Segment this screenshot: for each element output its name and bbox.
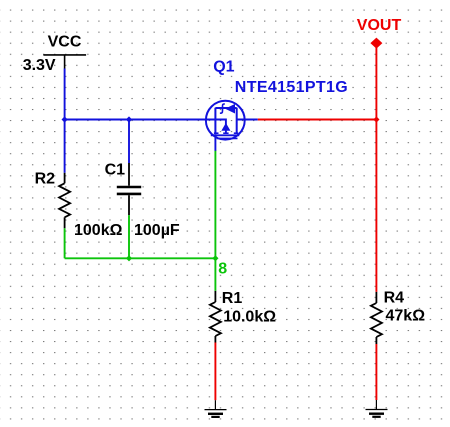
ground under R1 [205, 400, 227, 417]
node junction C1-rail (green) [126, 255, 132, 261]
node junction A (blue) [62, 116, 68, 122]
svg-text:8: 8 [218, 261, 227, 278]
resistor R4 [371, 292, 382, 344]
power symbol VCC bar [43, 55, 86, 69]
ground under R4 [366, 400, 388, 417]
node VOUT junction (red) [373, 116, 379, 122]
svg-text:47kΩ: 47kΩ [386, 307, 426, 324]
wire R2 bottom (green) [64, 228, 66, 258]
svg-text:R2: R2 [35, 171, 56, 188]
transistor Q1 MOSFET [206, 101, 258, 151]
svg-text:C1: C1 [105, 162, 126, 179]
wire source to R1 (green) [214, 150, 216, 291]
svg-text:R4: R4 [384, 290, 405, 307]
svg-text:R1: R1 [222, 290, 243, 307]
node net 8 junction (green) [212, 255, 218, 261]
wire bottom rail (green) [65, 257, 216, 259]
capacitor C1 [117, 163, 141, 215]
svg-text:3.3V: 3.3V [23, 57, 56, 74]
resistor R2 [59, 173, 70, 229]
resistor R1 [210, 291, 221, 343]
svg-text:VCC: VCC [48, 34, 82, 51]
svg-text:NTE4151PT1G: NTE4151PT1G [235, 79, 348, 96]
wire VOUT vertical top (red) [375, 47, 377, 120]
wire R1 to ground (red) [214, 343, 216, 401]
wire junction to R2 (blue) [64, 120, 66, 173]
node junction B (blue) [126, 116, 132, 122]
svg-text:Q1: Q1 [213, 59, 234, 76]
wire VOUT vertical to R4 (red) [375, 120, 377, 292]
wire VCC rail to gate (blue) [65, 119, 216, 121]
wire junction to C1 (blue) [128, 120, 130, 164]
svg-text:10.0kΩ: 10.0kΩ [223, 308, 276, 325]
svg-text:VOUT: VOUT [357, 17, 402, 34]
wire drain to VOUT (red) [258, 119, 377, 121]
wire VCC vertical (blue) [64, 69, 66, 120]
svg-text:100kΩ: 100kΩ [74, 222, 123, 239]
node VOUT pin diamond (red) [370, 38, 382, 49]
wire C1 bottom (green) [128, 215, 130, 258]
wire R4 to ground (red) [375, 344, 377, 400]
svg-text:100µF: 100µF [134, 222, 180, 239]
